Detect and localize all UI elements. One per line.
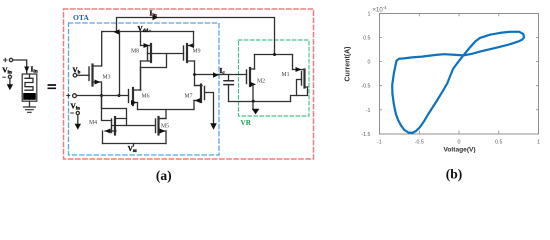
node Vb terminal: [73, 66, 90, 77]
boundary red dashed outer box: [64, 9, 314, 159]
svg-text:Iin: Iin: [31, 65, 38, 75]
wire M8 drain down to M6 drain: [140, 61, 142, 90]
boundary green dashed VR box: [239, 40, 310, 116]
wire M3 drain to Vdd rail: [102, 32, 103, 67]
svg-text:Current(A): Current(A): [345, 47, 352, 82]
capacitor C: [224, 75, 233, 102]
transistor M7: [194, 85, 205, 104]
svg-text:M7: M7: [185, 94, 193, 100]
transistor M5: [156, 117, 167, 135]
svg-text:-1: -1: [366, 108, 371, 114]
wire tail node: [138, 109, 195, 111]
wire Vdd label tick: [149, 31, 151, 32]
transistor M1: [293, 67, 308, 88]
svg-text:0.5: 0.5: [495, 140, 502, 146]
chart tick marks: [379, 13, 539, 133]
node minus terminal inner: [71, 111, 80, 114]
svg-text:Voltage(V): Voltage(V): [444, 146, 476, 153]
wire tail drop to M5 drain: [160, 110, 167, 119]
node Iin current arrow: [24, 67, 29, 73]
svg-text:M6: M6: [142, 94, 150, 100]
svg-text:-0.5: -0.5: [361, 84, 370, 90]
junction dot VR top: [273, 53, 276, 56]
wire rail junction down to plus-input wire: [119, 32, 121, 96]
chart x tick labels: [377, 140, 540, 146]
wire M9 source to Vdd rail: [193, 32, 195, 46]
wire M8 source to Vdd rail: [140, 32, 142, 46]
transistor M6: [129, 88, 141, 105]
boundary blue dashed OTA box: [69, 23, 220, 155]
node Vin+ input terminal: [4, 58, 13, 61]
node Vin- terminal: [3, 75, 12, 78]
wire M4 source to Vss rail: [102, 131, 104, 144]
wire M8 diode tie: [141, 54, 167, 68]
chart y tick labels: [361, 11, 370, 138]
svg-text:M3: M3: [103, 75, 111, 81]
svg-text:Ic: Ic: [220, 66, 226, 76]
svg-text:(b): (b): [446, 167, 463, 182]
arrow on Ic wire: [213, 72, 219, 77]
wire M1 source loop to bottom node: [291, 87, 308, 102]
svg-text:VR: VR: [241, 119, 252, 127]
ground under memristor: [24, 101, 36, 112]
wire Vss label tick: [133, 144, 135, 147]
wire OTA output Ic to M2 gate: [195, 74, 247, 76]
transistor M9: [184, 43, 195, 62]
wire M7 source to tail: [193, 101, 195, 110]
memristor symbol: [22, 74, 37, 101]
svg-text:1: 1: [537, 140, 540, 146]
wire M7 gate to ground: [205, 93, 214, 125]
svg-text:-1.5: -1.5: [361, 132, 370, 138]
junction dot M3 source on plus wire: [100, 94, 103, 97]
wire M2 source down to bottom node: [252, 85, 254, 101]
svg-text:M2: M2: [257, 79, 265, 85]
svg-text:-0.5: -0.5: [415, 140, 424, 146]
node plus input terminal: [67, 94, 77, 98]
transistor M2: [247, 68, 257, 87]
ground arrow inner input: [75, 115, 81, 130]
chart hysteresis curve: [392, 32, 524, 133]
wire M6 drain up to M8: [140, 68, 142, 91]
wire Vdd supply rail: [103, 31, 194, 33]
chart axes box: [380, 14, 539, 135]
svg-text:(a): (a): [156, 168, 172, 183]
wire M8 gate to M9 gate: [148, 53, 184, 55]
wire Iin top rail: [117, 18, 275, 55]
wire M2 drain up: [254, 55, 256, 70]
wire M4 gate-gate to M5: [112, 125, 156, 127]
svg-text:0.5: 0.5: [363, 35, 370, 41]
wire M5 source to Vss rail: [165, 131, 167, 144]
svg-text:M9: M9: [193, 49, 201, 55]
svg-text:×10-4: ×10-4: [373, 5, 388, 13]
svg-text:M8: M8: [131, 49, 139, 55]
svg-text:-1: -1: [377, 140, 382, 146]
svg-text:1: 1: [368, 11, 371, 17]
wire M1 gate tie: [297, 80, 302, 96]
wire plus input to M6 gate: [76, 95, 128, 97]
svg-text:0: 0: [368, 60, 371, 66]
svg-text:Vin: Vin: [2, 65, 12, 75]
wire M1 drain up: [292, 55, 294, 70]
ground arrow at M7 gate: [210, 123, 217, 129]
wire capacitor bottom to VR bottom node: [229, 101, 291, 103]
transistor M3: [89, 65, 102, 86]
svg-text:Vdd: Vdd: [138, 25, 149, 34]
arrow on top Iin wire: [153, 15, 159, 20]
equals sign: [48, 85, 55, 88]
wire Vss rail: [103, 143, 167, 145]
svg-text:M5: M5: [161, 124, 169, 130]
wire M4 diode loop: [102, 96, 127, 126]
svg-text:OTA: OTA: [73, 13, 89, 22]
svg-text:M4: M4: [89, 120, 97, 126]
svg-text:0: 0: [458, 140, 461, 146]
wire M9 drain down to output node: [195, 61, 203, 86]
transistor M8: [141, 43, 152, 62]
ground arrow at input: [7, 79, 13, 91]
junction dot on plus wire: [118, 94, 121, 97]
wire VR top node: [255, 54, 293, 56]
junction dot at output node: [193, 73, 196, 76]
wire input top to memristor: [13, 60, 27, 74]
wire M3 source down to plus node and M4 gate: [102, 82, 112, 121]
junction dot M2 source bottom: [252, 100, 255, 103]
wire M6 source to tail: [137, 103, 139, 110]
svg-text:M1: M1: [282, 72, 290, 78]
svg-text:Vin: Vin: [71, 103, 81, 112]
svg-text:Vss: Vss: [128, 145, 137, 154]
transistor M4: [105, 117, 127, 135]
ground arrow under M2: [252, 101, 260, 114]
arrow on Vdd rail at Iin junction: [114, 29, 120, 34]
